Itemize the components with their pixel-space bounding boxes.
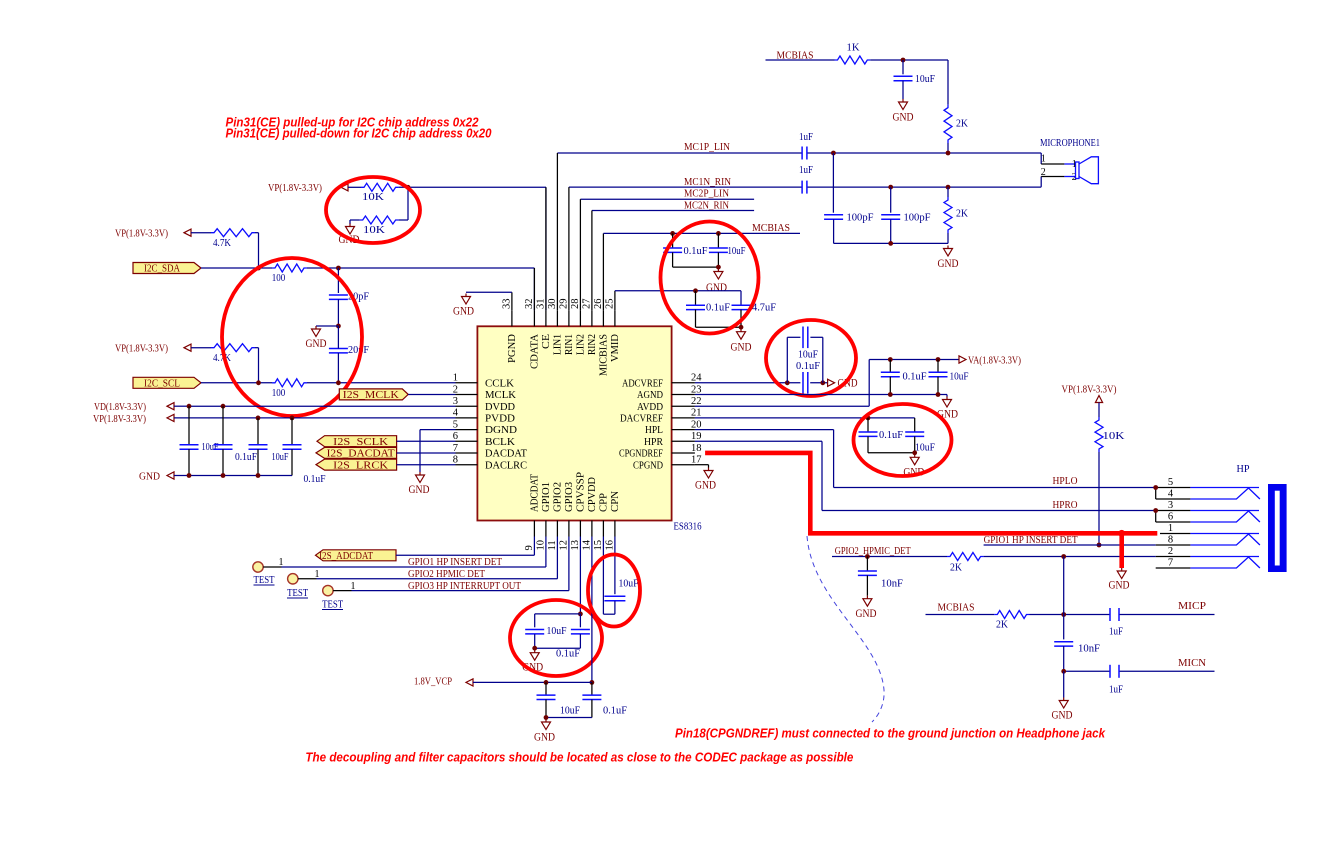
red ellipse around 10K divider bbox=[326, 177, 420, 243]
capacitor 0.1uF (VA) bbox=[881, 360, 927, 395]
svg-text:GND: GND bbox=[856, 608, 877, 620]
net label GPIO2 HPMIC DET (left) bbox=[408, 569, 486, 580]
net label MCBIAS (mid) bbox=[752, 222, 790, 234]
svg-text:CPP: CPP bbox=[598, 493, 609, 512]
wire MCBIAS top rail bbox=[766, 59, 835, 61]
dashed leader line to Pin18 note bbox=[807, 536, 884, 722]
svg-text:MICP: MICP bbox=[1178, 600, 1206, 612]
ground (HPMIC DET cap) bbox=[856, 596, 877, 620]
svg-text:I2C_SDA: I2C_SDA bbox=[144, 264, 180, 275]
svg-text:26: 26 bbox=[593, 299, 604, 310]
svg-text:0.1uF: 0.1uF bbox=[903, 371, 927, 383]
svg-text:HP: HP bbox=[1237, 463, 1250, 475]
resistor 4.7K (SDA) bbox=[211, 229, 255, 249]
svg-text:GND: GND bbox=[893, 112, 914, 124]
wire GPIO2 row bbox=[298, 537, 557, 579]
svg-text:1uF: 1uF bbox=[1109, 626, 1123, 638]
capacitor 10uF (ADCVREF top) bbox=[787, 327, 823, 383]
svg-text:0.1uF: 0.1uF bbox=[235, 451, 257, 463]
svg-text:0.1uF: 0.1uF bbox=[706, 302, 730, 314]
svg-text:GND: GND bbox=[453, 306, 474, 318]
svg-text:21: 21 bbox=[691, 408, 702, 419]
svg-text:10uF: 10uF bbox=[728, 245, 746, 257]
wire VD rail bbox=[187, 404, 456, 409]
svg-text:4.7K: 4.7K bbox=[213, 237, 231, 249]
svg-text:DACDAT: DACDAT bbox=[485, 449, 527, 460]
svg-text:4: 4 bbox=[1168, 489, 1174, 500]
svg-text:27: 27 bbox=[581, 299, 592, 310]
IC left pin stubs and numbers bbox=[453, 373, 478, 466]
ground (CP caps) bbox=[522, 650, 543, 674]
svg-text:6: 6 bbox=[453, 431, 458, 442]
wire CE net to pin31 bbox=[399, 185, 546, 310]
connector HP jack body bbox=[1268, 484, 1287, 572]
wire DACVREF caps ground rail bbox=[868, 450, 917, 455]
wire PGND to ground bbox=[466, 291, 512, 293]
node MIC line2 junctions bbox=[888, 185, 950, 190]
svg-text:The decoupling and filter capa: The decoupling and filter capacitors sho… bbox=[305, 750, 853, 765]
svg-text:10: 10 bbox=[535, 540, 546, 551]
svg-text:CCLK: CCLK bbox=[485, 378, 515, 389]
svg-text:15: 15 bbox=[593, 540, 604, 551]
wire GPIO1 row bbox=[263, 537, 546, 568]
svg-text:2: 2 bbox=[1041, 167, 1046, 178]
ground (MCBIAS caps) bbox=[706, 269, 727, 295]
svg-text:100pF: 100pF bbox=[904, 212, 931, 224]
svg-text:100: 100 bbox=[272, 387, 286, 399]
svg-text:3: 3 bbox=[1168, 500, 1173, 511]
svg-text:4: 4 bbox=[453, 408, 459, 419]
svg-text:GPIO1: GPIO1 bbox=[541, 482, 552, 512]
capacitor 100pF (right) bbox=[881, 187, 930, 243]
IC right pin stubs and numbers bbox=[672, 373, 703, 466]
ground (DACVREF caps) bbox=[903, 454, 924, 478]
svg-text:1uF: 1uF bbox=[799, 164, 813, 176]
wire 1K to 2K corner bbox=[870, 60, 948, 105]
svg-text:BCLK: BCLK bbox=[485, 437, 516, 448]
wire 4.7K to SCL line bbox=[255, 348, 259, 383]
svg-text:23: 23 bbox=[691, 384, 702, 395]
svg-text:33: 33 bbox=[501, 298, 512, 309]
ground (CPGND) bbox=[695, 468, 716, 492]
svg-text:2K: 2K bbox=[996, 619, 1008, 631]
svg-text:10uF: 10uF bbox=[619, 578, 639, 590]
wire MC1P LIN line bbox=[557, 152, 1041, 154]
IC name ES8316 bbox=[674, 522, 702, 533]
power 1.8V_VCP rail bbox=[414, 676, 592, 688]
svg-text:DVDD: DVDD bbox=[485, 402, 515, 413]
svg-text:29: 29 bbox=[558, 299, 569, 310]
capacitor 0.1uF (MCBIAS) bbox=[663, 233, 707, 267]
svg-text:14: 14 bbox=[581, 539, 592, 550]
svg-text:0.1uF: 0.1uF bbox=[304, 473, 326, 485]
IC bottom pin stubs and numbers bbox=[524, 521, 616, 551]
svg-text:1.8V_VCP: 1.8V_VCP bbox=[414, 676, 452, 688]
net label GPIO1 HP INSERT DET (left) bbox=[408, 557, 503, 568]
svg-text:13: 13 bbox=[570, 540, 581, 551]
svg-text:10K: 10K bbox=[363, 224, 385, 236]
capacitor 1uF (RIN1 input) bbox=[799, 164, 813, 194]
svg-text:GND: GND bbox=[1109, 580, 1130, 592]
svg-text:GND: GND bbox=[695, 480, 716, 492]
svg-text:GND: GND bbox=[409, 484, 430, 496]
ground rail left (GND arrow) bbox=[139, 471, 292, 483]
svg-text:VMID: VMID bbox=[610, 334, 621, 362]
svg-text:10K: 10K bbox=[362, 191, 384, 203]
net label GPIO1 HP INSERT DET (right) bbox=[984, 535, 1079, 546]
svg-text:MC1P_LIN: MC1P_LIN bbox=[684, 141, 730, 153]
svg-text:17: 17 bbox=[691, 455, 702, 466]
power VP(1.8V-3.3V) (HP detect pull-up) bbox=[1062, 384, 1117, 418]
wire 2K to MIC line1 bbox=[947, 143, 949, 153]
wire 10K to GPIO1 net bbox=[1097, 452, 1102, 547]
svg-text:AGND: AGND bbox=[637, 390, 663, 401]
svg-text:1uF: 1uF bbox=[799, 131, 813, 143]
svg-text:VD(1.8V-3.3V): VD(1.8V-3.3V) bbox=[94, 401, 146, 413]
svg-text:1: 1 bbox=[1041, 153, 1046, 164]
svg-text:16: 16 bbox=[604, 540, 615, 551]
svg-text:VP(1.8V-3.3V): VP(1.8V-3.3V) bbox=[93, 413, 146, 425]
net label MCBIAS (top) bbox=[777, 50, 814, 62]
svg-text:2: 2 bbox=[453, 384, 458, 395]
svg-text:GPIO2_HPMIC_DET: GPIO2_HPMIC_DET bbox=[835, 546, 911, 557]
svg-text:HPL: HPL bbox=[645, 425, 663, 436]
capacitor 0.1uF (DACVREF) bbox=[859, 418, 904, 453]
wire ADCVREF net (pin24) bbox=[695, 380, 828, 385]
ground (VMID caps) bbox=[731, 329, 752, 354]
capacitor 10uF (flying, CPP-CPN) bbox=[604, 537, 638, 615]
ground (20pF mid) bbox=[306, 326, 339, 350]
svg-text:PGND: PGND bbox=[507, 334, 518, 363]
wire VMID net (pin25) bbox=[615, 288, 741, 305]
svg-text:MCBIAS: MCBIAS bbox=[752, 222, 790, 234]
node MIC line1 junctions bbox=[831, 151, 950, 156]
wire VP rail bbox=[256, 416, 456, 421]
svg-text:Pin31(CE) pulled-down for I2C: Pin31(CE) pulled-down for I2C chip addre… bbox=[226, 126, 493, 141]
svg-text:30: 30 bbox=[547, 299, 558, 310]
red annotation: Pin31 pull-down note line 2 bbox=[226, 126, 493, 141]
svg-text:CE: CE bbox=[541, 334, 552, 349]
wire GPIO1 right net bbox=[984, 544, 1156, 546]
capacitor 4.7uF (VMID) bbox=[732, 302, 777, 328]
ground (PGND) bbox=[453, 294, 474, 318]
svg-text:DACLRC: DACLRC bbox=[485, 460, 527, 471]
svg-text:RIN2: RIN2 bbox=[587, 334, 598, 355]
svg-text:6: 6 bbox=[1168, 512, 1173, 523]
wire CPVSSP (pin13) drop bbox=[578, 537, 583, 617]
svg-text:2K: 2K bbox=[956, 208, 968, 220]
svg-text:10uF: 10uF bbox=[798, 349, 818, 361]
svg-text:10uF: 10uF bbox=[560, 705, 580, 717]
svg-text:ADCDAT: ADCDAT bbox=[529, 474, 540, 512]
svg-text:TEST: TEST bbox=[287, 588, 308, 599]
svg-text:CPGND: CPGND bbox=[633, 460, 663, 471]
wire GPIO3 row bbox=[333, 537, 569, 591]
resistor 2K (lower) bbox=[944, 187, 968, 243]
red ellipse around CP caps bbox=[510, 600, 602, 676]
connector HP jack pins bbox=[1153, 477, 1260, 569]
svg-text:0.1uF: 0.1uF bbox=[556, 648, 580, 660]
svg-text:CPN: CPN bbox=[610, 491, 621, 512]
wire MC1N RIN line bbox=[569, 186, 1041, 188]
svg-text:10uF: 10uF bbox=[272, 451, 289, 463]
svg-text:32: 32 bbox=[524, 299, 535, 310]
net label MCBIAS (bottom) bbox=[938, 602, 975, 614]
red ellipse around ADCVREF caps bbox=[766, 320, 856, 396]
svg-text:19: 19 bbox=[691, 431, 702, 442]
ground (VCP caps) bbox=[534, 719, 555, 744]
net label MICP bbox=[1178, 600, 1206, 612]
capacitor 0.1uF (ADCVREF series) bbox=[796, 360, 820, 393]
svg-text:CPGNDREF: CPGNDREF bbox=[619, 449, 663, 460]
svg-text:GND: GND bbox=[139, 471, 160, 483]
svg-text:CPVDD: CPVDD bbox=[587, 477, 598, 512]
capacitor 20pF (SCL) bbox=[329, 326, 369, 383]
svg-text:10uF: 10uF bbox=[547, 625, 567, 637]
svg-text:GPIO3: GPIO3 bbox=[564, 482, 575, 512]
wire CP caps bottom rail bbox=[532, 646, 580, 651]
flag I2S_DACDAT (pin7) bbox=[316, 447, 397, 459]
wire CPVSSP top rail bbox=[535, 613, 581, 615]
flag I2C_SDA bbox=[133, 263, 201, 275]
capacitor 10uF (MCBIAS) bbox=[709, 233, 746, 267]
wire MCBIAS to 2K bbox=[926, 614, 995, 616]
svg-text:100: 100 bbox=[272, 272, 286, 284]
wire DGND pin5 to ground bbox=[420, 430, 456, 472]
red ellipse around I2C filters bbox=[222, 258, 362, 416]
flag I2C_SCL bbox=[133, 377, 201, 389]
svg-text:I2S_MCLK: I2S_MCLK bbox=[343, 390, 399, 401]
net label GPIO3 HP INTERRUPT OUT (left) bbox=[408, 581, 521, 592]
svg-text:MC2N_RIN: MC2N_RIN bbox=[684, 199, 729, 211]
svg-text:1K: 1K bbox=[847, 42, 860, 54]
connector MICROPHONE1 bbox=[1040, 138, 1100, 187]
svg-text:CPVSSP: CPVSSP bbox=[575, 472, 586, 512]
svg-text:MCLK: MCLK bbox=[485, 390, 517, 401]
svg-text:VA(1.8V-3.3V): VA(1.8V-3.3V) bbox=[968, 355, 1021, 367]
wire MICN row bbox=[1061, 669, 1214, 674]
capacitor 0.1uF (CP) bbox=[556, 614, 590, 660]
svg-text:0.1uF: 0.1uF bbox=[684, 245, 708, 257]
svg-text:10uF: 10uF bbox=[202, 441, 219, 453]
svg-text:LIN1: LIN1 bbox=[552, 334, 563, 355]
svg-text:9: 9 bbox=[524, 545, 535, 550]
capacitor 10uF (VCP) bbox=[537, 682, 581, 717]
capacitor 10uF (MCBIAS filter) bbox=[894, 60, 936, 85]
test point TP1 bbox=[253, 557, 284, 586]
ground (red wire, HP jack) bbox=[1109, 568, 1130, 592]
svg-text:2K: 2K bbox=[956, 118, 968, 130]
resistor 100 (SDA) bbox=[272, 264, 307, 284]
power VP(1.8V-3.3V) for CE pull-up bbox=[268, 182, 361, 194]
svg-text:0.1uF: 0.1uF bbox=[796, 360, 820, 372]
test point TP2 bbox=[287, 569, 320, 599]
flag I2S_SCLK (pin6) bbox=[317, 436, 397, 448]
svg-text:TEST: TEST bbox=[254, 575, 275, 586]
wire SCLK flag to pin6 bbox=[397, 440, 456, 442]
wire AGND (pin23) bbox=[695, 392, 947, 397]
resistor 4.7K (SCL) bbox=[211, 344, 255, 364]
resistor 10K (pull-down) bbox=[360, 216, 399, 236]
capacitor 10uF (VD 1) bbox=[180, 406, 219, 475]
red ellipse around flying cap bbox=[588, 555, 640, 627]
svg-text:7: 7 bbox=[1168, 558, 1173, 569]
capacitor 0.1uF (VCP) bbox=[582, 682, 627, 717]
capacitor 10nF (HPMIC DET) bbox=[858, 557, 903, 596]
wire I2C SDA line bbox=[201, 266, 534, 311]
svg-text:DGND: DGND bbox=[485, 425, 517, 436]
power VP(1.8V-3.3V) rail bbox=[93, 413, 258, 425]
svg-text:12: 12 bbox=[558, 540, 569, 551]
wire MICP row bbox=[1030, 612, 1215, 617]
svg-text:1uF: 1uF bbox=[1109, 684, 1123, 696]
wire DACDAT flag to pin7 bbox=[397, 452, 456, 454]
thick red wire pin18 CPGNDREF to HP jack ground bbox=[705, 453, 1157, 568]
red annotation: Pin31 pull-up note line 1 bbox=[226, 115, 480, 130]
red ellipse around MCBIAS/VMID caps bbox=[661, 222, 759, 334]
svg-text:VP(1.8V-3.3V): VP(1.8V-3.3V) bbox=[268, 182, 322, 194]
svg-text:20pF: 20pF bbox=[348, 344, 369, 356]
capacitor 1uF (MICP) bbox=[1109, 608, 1123, 638]
connector HP label bbox=[1237, 463, 1250, 475]
svg-text:4.7uF: 4.7uF bbox=[752, 302, 776, 314]
IC U1 ES8316 body bbox=[477, 326, 671, 520]
svg-text:10uF: 10uF bbox=[950, 371, 969, 383]
net label MC1N_RIN bbox=[684, 176, 731, 188]
svg-text:AVDD: AVDD bbox=[637, 402, 663, 413]
capacitor 10uF (VP 1) bbox=[249, 418, 289, 476]
svg-text:HPRO: HPRO bbox=[1053, 499, 1078, 511]
wire ADCDAT flag to pin9 bbox=[396, 537, 534, 556]
ground (AGND) bbox=[937, 395, 958, 421]
wire mic network ground rail bbox=[834, 241, 948, 246]
wire MC2N RIN stub bbox=[592, 210, 754, 212]
net label MC2P_LIN bbox=[684, 187, 729, 199]
svg-text:GPIO2: GPIO2 bbox=[552, 482, 563, 512]
svg-text:20: 20 bbox=[691, 419, 702, 430]
node MCBIAS-10uF junction bbox=[901, 58, 906, 63]
svg-text:VP(1.8V-3.3V): VP(1.8V-3.3V) bbox=[115, 343, 168, 355]
svg-text:MICROPHONE1: MICROPHONE1 bbox=[1040, 138, 1100, 149]
svg-text:100pF: 100pF bbox=[847, 212, 874, 224]
svg-text:11: 11 bbox=[547, 540, 558, 550]
wire CPGND (pin17) bbox=[695, 465, 709, 468]
wire DACVREF net (pin21) bbox=[695, 416, 915, 421]
wire I2C SCL line bbox=[201, 380, 456, 385]
svg-text:1: 1 bbox=[1168, 523, 1173, 534]
svg-text:GND: GND bbox=[534, 732, 555, 744]
svg-text:MCBIAS: MCBIAS bbox=[938, 602, 975, 614]
capacitor 10uF (CP) bbox=[525, 614, 566, 648]
wire 4.7K to SDA line bbox=[255, 233, 259, 268]
svg-text:0.1uF: 0.1uF bbox=[603, 705, 627, 717]
svg-text:TEST: TEST bbox=[322, 600, 343, 611]
capacitor 0.1uF (VP 2) bbox=[283, 418, 326, 485]
svg-text:MICBIAS: MICBIAS bbox=[598, 334, 609, 376]
svg-text:I2S_DACDAT: I2S_DACDAT bbox=[327, 449, 396, 460]
svg-text:MC1N_RIN: MC1N_RIN bbox=[684, 176, 731, 188]
node 20pF mid junction bbox=[336, 299, 341, 328]
svg-text:10nF: 10nF bbox=[881, 578, 903, 590]
svg-text:1: 1 bbox=[453, 373, 458, 384]
svg-text:ADCVREF: ADCVREF bbox=[622, 378, 663, 389]
net label MICN bbox=[1178, 657, 1206, 669]
svg-text:HPLO: HPLO bbox=[1053, 475, 1078, 487]
svg-text:GND: GND bbox=[706, 282, 727, 294]
svg-text:GND: GND bbox=[938, 258, 959, 270]
flag I2S_ADCDAT (pin9) bbox=[316, 550, 397, 562]
svg-text:8: 8 bbox=[1168, 535, 1173, 546]
net label HPRO bbox=[1053, 499, 1078, 511]
resistor 10K (pull-up) bbox=[361, 183, 399, 203]
svg-text:DACVREF: DACVREF bbox=[620, 414, 663, 425]
svg-text:31: 31 bbox=[535, 299, 546, 310]
flag I2S_LRCK (pin8) bbox=[316, 459, 397, 471]
capacitor 100pF (left) bbox=[824, 153, 873, 243]
resistor 1K bbox=[835, 42, 871, 65]
wire MC1N to mic pin2 bbox=[1040, 186, 1042, 188]
svg-text:10uF: 10uF bbox=[915, 73, 935, 85]
net label GPIO2 HPMIC DET (right) bbox=[835, 546, 911, 557]
svg-text:10nF: 10nF bbox=[1078, 643, 1100, 655]
wire LRCK flag to pin8 bbox=[397, 464, 456, 466]
capacitor 1uF (LIN1 input) bbox=[799, 131, 813, 159]
svg-text:25: 25 bbox=[604, 299, 615, 310]
wire MCBIAS net (pin26) bbox=[603, 231, 800, 236]
wire HPL (pin20) to HPLO bbox=[695, 430, 1156, 488]
wire GPIO2 right net bbox=[832, 554, 1156, 559]
svg-text:I2S_SCLK: I2S_SCLK bbox=[333, 437, 388, 448]
svg-text:5: 5 bbox=[453, 419, 458, 430]
power VP(1.8V-3.3V) (SDA pull-up) bbox=[115, 228, 211, 240]
svg-text:GND: GND bbox=[306, 338, 327, 350]
svg-text:28: 28 bbox=[570, 299, 581, 310]
svg-text:HPR: HPR bbox=[644, 437, 663, 448]
svg-text:I2C_SCL: I2C_SCL bbox=[144, 379, 180, 390]
wire 10K2 right to junction bbox=[399, 187, 408, 220]
wire CPVDD (pin14) drop bbox=[590, 537, 595, 685]
net label HPLO bbox=[1053, 475, 1078, 487]
capacitor 10nF (mic bias) bbox=[1054, 642, 1100, 672]
svg-text:I2S_LRCK: I2S_LRCK bbox=[333, 460, 388, 471]
wire MCLK flag to pin2 bbox=[408, 394, 455, 396]
ground (DGND) bbox=[409, 472, 430, 496]
power VA(1.8V-3.3V) bbox=[869, 355, 1021, 367]
resistor 2K (HPMIC DET) bbox=[947, 553, 984, 574]
svg-text:8: 8 bbox=[453, 455, 458, 466]
svg-text:0.1uF: 0.1uF bbox=[879, 429, 903, 441]
resistor 2K (MCBIAS) bbox=[994, 611, 1029, 631]
svg-text:GND: GND bbox=[731, 342, 752, 354]
red annotation: decoupling caps note bbox=[305, 750, 853, 765]
svg-text:18: 18 bbox=[691, 443, 702, 454]
svg-text:I2S_ADCDAT: I2S_ADCDAT bbox=[319, 551, 374, 562]
wire VCP caps bottom rail bbox=[544, 715, 592, 720]
svg-text:GND: GND bbox=[1052, 710, 1073, 722]
ground (mic bias) bbox=[1052, 671, 1073, 721]
capacitor 1uF (MICN) bbox=[1109, 665, 1123, 696]
svg-text:CDATA: CDATA bbox=[529, 333, 540, 369]
svg-text:VP(1.8V-3.3V): VP(1.8V-3.3V) bbox=[1062, 384, 1117, 396]
svg-text:Pin18(CPGNDREF) must connected: Pin18(CPGNDREF) must connected to the gr… bbox=[675, 726, 1106, 741]
flag I2S_MCLK (pin2) bbox=[339, 389, 408, 401]
wire GPIO2 vertical to mic bias node bbox=[1063, 557, 1065, 640]
wire VMID caps ground rail bbox=[696, 325, 744, 330]
resistor 10K (HP insert det pull-up) bbox=[1095, 417, 1125, 452]
power VP(1.8V-3.3V) (SCL pull-up) bbox=[115, 343, 211, 355]
svg-text:5: 5 bbox=[1168, 477, 1173, 488]
resistor 100 (SCL) bbox=[272, 379, 307, 399]
